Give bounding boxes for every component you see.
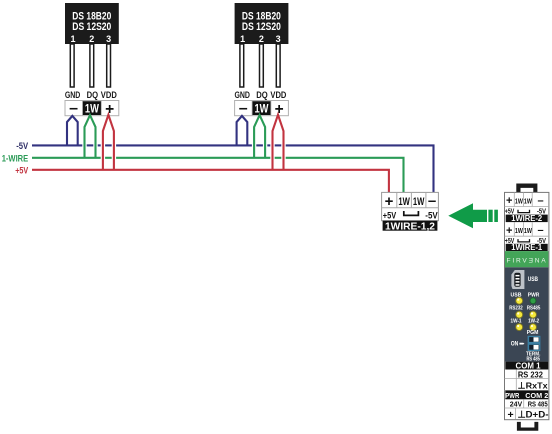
bus +5V (red) [32, 170, 389, 193]
svg-text:1WIRE-1: 1WIRE-1 [511, 243, 543, 252]
svg-text:+: + [506, 225, 512, 237]
wire S2 + terminal to +5V bus [273, 115, 284, 170]
module top mounting tab [516, 184, 537, 193]
terminal block 1WIRE-1,2 [382, 192, 439, 232]
svg-text:1W: 1W [515, 226, 524, 235]
module terminal 1WIRE-2 row [505, 192, 549, 223]
svg-text:USB: USB [528, 276, 539, 283]
module FIRVENA logo band [505, 251, 548, 267]
arrow (green, pointing left) [448, 203, 498, 228]
svg-text:–: – [428, 192, 436, 209]
module FIRVENA 1WIRE converter [505, 184, 549, 431]
bus 1-WIRE (green) [32, 158, 404, 193]
svg-text:1W: 1W [524, 197, 533, 206]
module RxTx row [505, 390, 549, 392]
module dark face [505, 267, 548, 361]
svg-text:PGM: PGM [527, 330, 539, 336]
svg-text:1WIRE-2: 1WIRE-2 [511, 214, 543, 223]
svg-text:RS 485: RS 485 [528, 400, 548, 409]
svg-text:ON: ON [511, 341, 519, 347]
svg-text:+5V: +5V [15, 165, 28, 175]
wire S1 1W terminal to 1-WIRE bus [85, 115, 96, 158]
svg-text:1W: 1W [398, 196, 410, 208]
wire S1 + terminal to +5V bus [103, 115, 114, 170]
svg-text:1WIRE-1,2: 1WIRE-1,2 [385, 220, 435, 232]
svg-text:RxTx: RxTx [526, 380, 548, 390]
LED 1W-1 (yellow) [516, 324, 523, 331]
sensor S1 (DS18B20/DS12S20) [65, 3, 119, 100]
wire S2 GND terminal to -5V bus [237, 116, 248, 145]
terminal strip TB1 (- 1W +) [65, 100, 119, 118]
module RS 232 row [515, 370, 517, 391]
svg-text:1W: 1W [413, 196, 425, 208]
svg-text:24V: 24V [510, 400, 523, 409]
LED RS485 (yellow) [530, 311, 537, 318]
LED USB (yellow) [516, 297, 523, 304]
module body outline [505, 192, 549, 419]
svg-text:RS485: RS485 [527, 305, 541, 311]
bus -5V (blue) [32, 145, 434, 192]
LED 1W-2 (yellow) [530, 324, 537, 331]
module DIP switch [528, 336, 541, 351]
svg-text:1W: 1W [515, 197, 524, 206]
LED PWR (green) [530, 298, 536, 304]
module PWR COM 2 band [505, 391, 548, 400]
sensor S2 (DS18B20/DS12S20) [234, 3, 288, 100]
svg-text:1W: 1W [524, 226, 533, 235]
svg-text:–: – [537, 195, 543, 207]
svg-text:⊥: ⊥ [518, 380, 526, 390]
module USB connector [511, 270, 524, 289]
module terminal 1WIRE-1 row [505, 222, 549, 252]
module COM 1 band [505, 362, 548, 370]
svg-text:RS232: RS232 [509, 305, 523, 311]
svg-text:COM 1: COM 1 [516, 362, 542, 371]
svg-text:FIRVƎNA: FIRVƎNA [507, 257, 548, 264]
svg-text:+: + [506, 195, 512, 207]
svg-text:+: + [508, 409, 514, 421]
svg-text:1-WIRE: 1-WIRE [2, 153, 29, 163]
svg-text:-5V: -5V [16, 141, 28, 151]
svg-text:D+D-: D+D- [526, 410, 549, 420]
svg-text:–: – [537, 225, 543, 237]
LED RS232 (yellow) [516, 311, 523, 318]
wire S2 1W terminal to 1-WIRE bus [254, 115, 265, 158]
module 24V RS485 row [523, 399, 525, 408]
module bottom mounting tab [517, 422, 538, 431]
terminal strip TB2 (- 1W +) [235, 100, 289, 118]
svg-text:RS 232: RS 232 [518, 371, 543, 380]
svg-text:+: + [385, 193, 394, 210]
wire S1 GND terminal to -5V bus [67, 116, 78, 145]
